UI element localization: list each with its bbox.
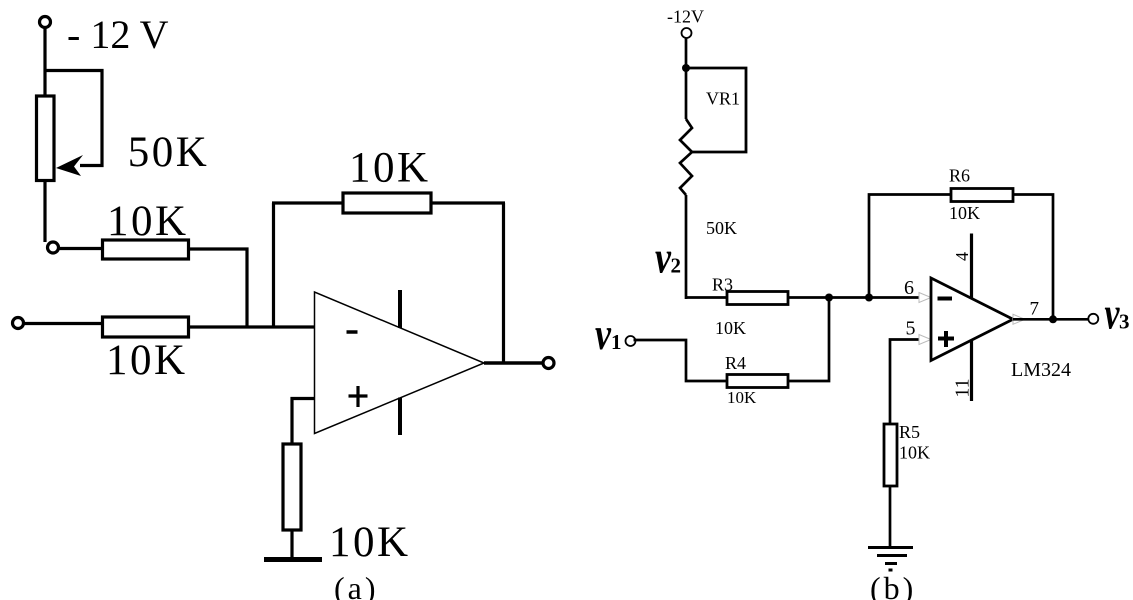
output wire (a) [484, 361, 543, 365]
pin 4 bar [970, 234, 973, 299]
resistor 10K upper (a) [103, 240, 189, 259]
svg-text:10K: 10K [899, 443, 930, 463]
wire node to R upper [60, 247, 103, 250]
pin 11 bar [970, 341, 973, 402]
wire R upper right [189, 249, 248, 327]
svg-text:5: 5 [906, 318, 916, 340]
wire potentiometer bottom to node [43, 180, 46, 242]
resistor R3 [727, 292, 788, 305]
wire R lower right to op-amp minus [189, 325, 315, 328]
wire zigzag to v2 node [685, 195, 688, 299]
input arrow plus (b) [919, 335, 931, 345]
feedback wire left (b) [869, 195, 951, 298]
resistor 10K vertical (a) [283, 444, 301, 530]
wire plus input (a) [292, 399, 315, 445]
wire wiper strap [45, 71, 102, 166]
svg-text:VR1: VR1 [706, 89, 740, 109]
feedback left vertical wire (a) [272, 203, 275, 327]
op-amp (a) plus sign [349, 386, 368, 407]
svg-text:R4: R4 [725, 353, 746, 373]
op-amp (b) plus sign [938, 331, 954, 347]
input arrow minus (b) [919, 293, 931, 303]
svg-text:v: v [1105, 289, 1121, 339]
output terminal circle (a) [543, 358, 554, 369]
resistor 10K lower (a) [103, 317, 189, 337]
svg-text:10K: 10K [727, 388, 757, 407]
wire plus input (b) [890, 340, 920, 425]
feedback right vertical wire (a) [502, 203, 505, 363]
svg-text:10K: 10K [107, 198, 189, 245]
potentiometer 50K body [37, 96, 55, 181]
svg-text:-12V: -12V [667, 7, 704, 27]
terminal v1 circle [626, 336, 636, 346]
input terminal circle 2 (a) [13, 318, 24, 329]
svg-text:R5: R5 [899, 422, 920, 442]
svg-text:6: 6 [904, 277, 914, 299]
VR1 wire above zigzag [685, 68, 688, 119]
VR1 zigzag resistor [680, 119, 692, 195]
svg-text:v: v [595, 309, 612, 359]
feedback resistor 10K (a) [343, 193, 431, 213]
op-amp (a) top power pin bar [398, 290, 402, 328]
wire R4 right up to junction [788, 298, 829, 382]
output wire (b) [1013, 318, 1089, 321]
op-amp (a) triangle [315, 292, 485, 434]
feedback wire right (b) [1013, 195, 1053, 320]
svg-text:R6: R6 [949, 166, 970, 186]
wire terminal to junction [685, 39, 688, 69]
junction dot feedback [865, 294, 873, 302]
resistor R5 [884, 424, 897, 486]
svg-text:1: 1 [611, 330, 622, 354]
svg-text:2: 2 [671, 254, 682, 278]
svg-text:10K: 10K [106, 337, 188, 384]
wire from -12V terminal to potentiometer top [43, 28, 46, 96]
resistor R4 [727, 375, 788, 388]
svg-text:7: 7 [1030, 299, 1040, 320]
svg-text:10K: 10K [349, 145, 431, 192]
ground symbol (b) [868, 548, 913, 571]
feedback top-right wire (a) [431, 201, 505, 204]
svg-text:10K: 10K [949, 203, 980, 223]
svg-text:50K: 50K [706, 218, 737, 238]
svg-text:(b): (b) [870, 570, 916, 600]
svg-text:4: 4 [952, 252, 972, 261]
node terminal circle (a) [48, 242, 59, 253]
wire input 2 to R lower [24, 322, 103, 325]
op-amp (b) triangle [931, 278, 1013, 361]
terminal -12V (a) [40, 17, 51, 28]
svg-text:- 12 V: - 12 V [67, 12, 169, 57]
feedback top-left wire (a) [272, 201, 343, 204]
op-amp (a) minus sign [347, 330, 358, 334]
wire to ground (a) [290, 530, 293, 559]
op-amp (b) minus sign [938, 297, 953, 301]
junction dot output [1049, 315, 1057, 323]
VR1 strap wire [686, 68, 746, 152]
svg-text:(a): (a) [334, 570, 379, 600]
junction dot R3-R4 [825, 294, 833, 302]
wire v2 to R3 [686, 296, 727, 299]
junction dot top (b) [682, 64, 690, 72]
wire v1 to R4 [634, 340, 728, 381]
svg-text:11: 11 [952, 378, 974, 397]
wire R3 to op-amp minus [788, 296, 920, 299]
terminal -12V (b) [682, 28, 692, 38]
svg-text:3: 3 [1119, 310, 1130, 334]
wire R5 to ground [889, 486, 892, 547]
ground bar (a) [264, 557, 322, 562]
resistor R6 [951, 189, 1013, 202]
svg-text:LM324: LM324 [1011, 359, 1071, 381]
svg-text:v: v [655, 233, 672, 283]
terminal v3 circle [1088, 314, 1098, 324]
wiper arrowhead [56, 155, 83, 176]
svg-text:50K: 50K [128, 129, 210, 176]
svg-text:10K: 10K [329, 519, 411, 566]
op-amp (a) bottom power pin bar [398, 398, 402, 436]
output arrow (b) [1013, 314, 1025, 324]
svg-text:10K: 10K [715, 318, 746, 338]
